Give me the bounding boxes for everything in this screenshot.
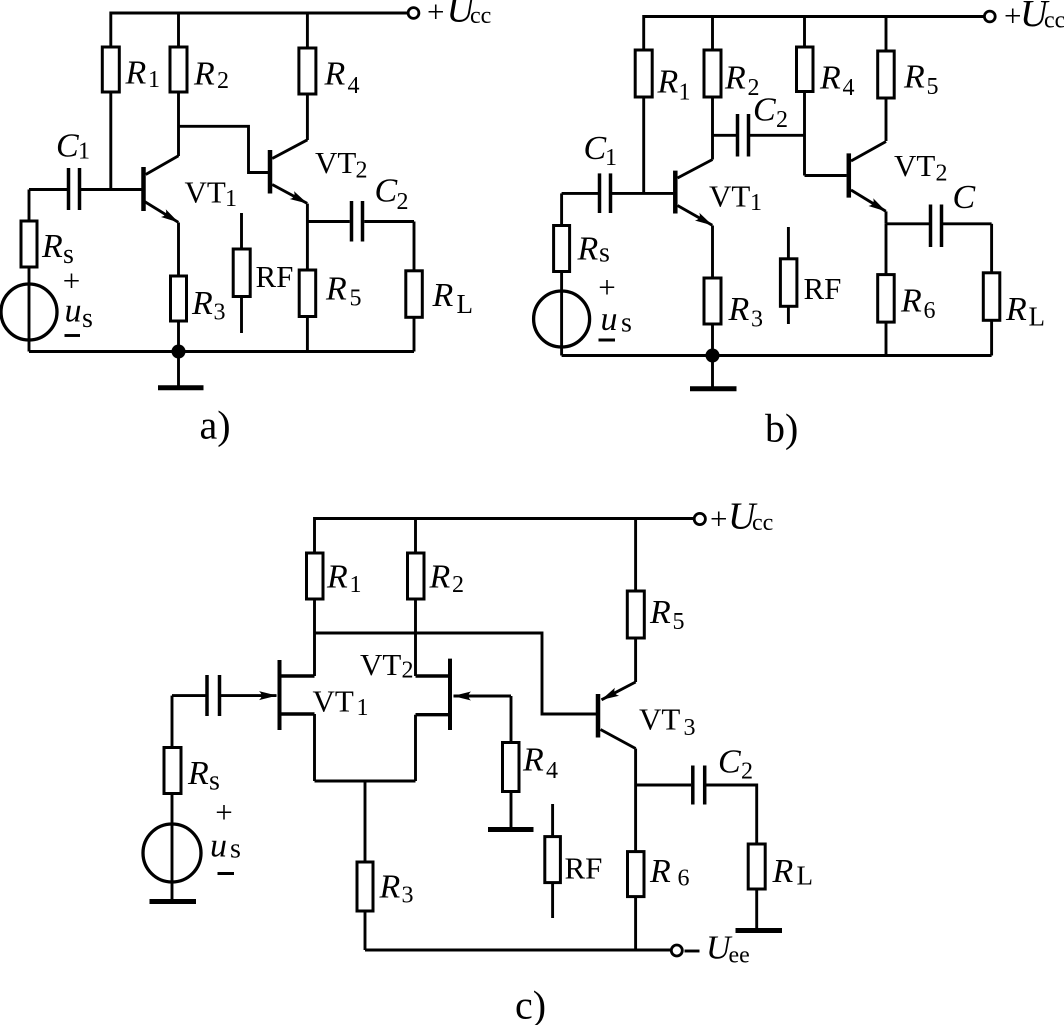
svg-text:1: 1 [78,139,90,165]
label -Uee (c) [685,930,750,969]
svg-text:R: R [429,559,451,596]
resistor Rs (b) [554,193,570,271]
svg-text:L: L [457,289,474,319]
svg-text:RF: RF [256,259,294,294]
capacitor C1 (a) [69,168,80,210]
junction dot (a) [172,345,186,359]
capacitor C2 (c) [693,766,705,805]
label + polarity (a) [63,263,80,298]
label +Ucc (a) [427,0,491,31]
label +Ucc (b) [1004,0,1064,35]
svg-text:R: R [724,60,746,97]
junction dot (b) [706,349,720,363]
wire: input node to C1 (a) [29,188,67,191]
resistor Rs (a) [21,190,37,268]
svg-text:R: R [522,742,544,779]
svg-text:s: s [230,834,241,865]
svg-text:+: + [598,270,615,305]
wire: VT1 emitter to R3 (a) [177,223,180,277]
terminal +Ucc (c) [694,513,705,524]
svg-text:R: R [432,277,454,314]
capacitor C2 (a) [352,201,363,242]
svg-text:R: R [193,56,215,93]
label Rs (c) [187,755,220,797]
svg-text:R: R [577,231,599,268]
label R4 (a) [324,56,360,100]
label a) [200,403,231,448]
wire: +Ucc supply rail (c) [315,519,695,554]
svg-text:s: s [209,766,220,797]
label VT1 (b) [709,179,762,217]
svg-text:L: L [1029,302,1046,332]
svg-text:s: s [599,238,610,269]
svg-text:+: + [1004,0,1021,33]
label - polarity (c) [218,872,235,875]
label C (b) [953,179,976,216]
ground under R4 (c) [488,827,534,832]
svg-text:s: s [621,308,632,339]
svg-text:3: 3 [684,715,696,741]
svg-text:R: R [191,285,213,322]
resistor R2 (c) [408,519,425,677]
svg-text:1: 1 [225,186,237,212]
transistor VT2 (a) [270,140,307,204]
capacitor C (b) [931,205,942,248]
svg-text:2: 2 [397,189,409,215]
label R4 (c) [522,742,558,785]
label RL (a) [432,277,474,319]
label R4 (b) [819,60,855,102]
svg-text:u: u [210,828,227,865]
svg-text:C: C [584,130,607,167]
svg-text:b): b) [765,406,798,451]
resistor R3 (a) [171,276,187,352]
label R6 (c) [649,853,690,892]
resistor RL (a) [406,222,423,352]
label R5 (b) [903,59,939,101]
svg-text:R: R [819,60,841,97]
resistor R3 (c) [357,781,373,950]
wire: Rs to C1 (c) [172,694,206,697]
svg-text:RF: RF [804,271,842,306]
svg-text:RF: RF [565,851,603,886]
wire: C to RL (b) [943,222,992,225]
svg-text:C: C [753,92,776,129]
label C1 (a) [56,128,90,165]
transistor VT2 (c) [416,659,512,730]
resistor R4 (c) [503,696,520,827]
svg-text:cc: cc [1044,8,1064,34]
label us (b) [601,301,632,339]
svg-text:2: 2 [217,68,229,94]
svg-text:R: R [772,853,794,890]
svg-text:VT: VT [315,145,356,180]
capacitor C1 (b) [600,173,611,213]
resistor R4 (b) [797,17,814,176]
source us (b) [534,272,590,356]
terminal -Uee (c) [671,945,682,956]
wire: VT2 source drop (c) [414,715,417,781]
svg-text:cc: cc [470,3,491,29]
resistor R1 (b) [635,50,652,193]
label R1 (a) [125,55,161,94]
label R1 (c) [326,559,362,599]
svg-text:ee: ee [729,943,750,969]
label c) [515,983,546,1025]
resistor R1 (a) [102,47,119,190]
svg-text:4: 4 [348,73,360,99]
transistor VT1 (a) [144,156,179,223]
wire: R2 node to C2 (b) [713,134,737,137]
label R1 (b) [657,64,691,106]
svg-text:2: 2 [452,572,464,598]
svg-text:R: R [326,559,348,596]
terminal +Ucc (a) [408,8,419,19]
svg-text:3: 3 [402,883,414,909]
wire: ground rail (a) [29,350,414,353]
label R6 (b) [900,283,936,325]
label C2 (c) [718,744,753,785]
label + polarity (c) [215,795,232,830]
svg-text:R: R [903,59,925,96]
resistor R6 (b) [878,224,895,356]
resistor R6 (c) [628,785,645,950]
svg-text:u: u [601,301,618,338]
transistor VT1 (b) [675,160,712,226]
resistor R4 (a) [299,13,316,140]
svg-text:4: 4 [546,758,558,784]
svg-text:6: 6 [924,298,936,324]
svg-text:C: C [718,744,741,781]
resistor Rs (c) [164,696,181,794]
label C1 (b) [584,130,618,171]
transistor VT3 (c) [598,682,636,749]
label R5 (c) [649,594,685,635]
wire: VT1 emitter to R3 (b) [711,226,714,279]
label R2 (b) [724,60,760,102]
svg-text:R: R [187,755,209,792]
wire: VT2 emitter to output node (a) [306,204,309,222]
svg-text:VT: VT [360,647,401,682]
svg-text:R: R [324,56,346,93]
wire: drain node to VT3 base (c) [315,633,597,714]
label VT2 (b) [894,148,948,187]
wire: C1 to VT1 base (a) [81,188,142,191]
resistor R1 (c) [307,553,324,676]
svg-text:5: 5 [673,609,685,635]
label R5 (a) [325,271,362,312]
label VT2 (a) [315,145,368,184]
svg-text:2: 2 [936,161,948,187]
svg-text:VT: VT [185,175,226,210]
resistor R5 (b) [878,17,895,142]
resistor R3 (b) [704,278,721,356]
svg-text:1: 1 [679,80,691,106]
transistor VT1 (c) [221,660,315,730]
svg-text:L: L [797,861,814,891]
resistor RF (a) [233,213,250,333]
svg-text:R: R [900,283,922,320]
svg-text:6: 6 [678,866,690,892]
svg-text:C: C [56,128,79,165]
source us (c) [143,794,201,901]
svg-text:a): a) [200,403,231,448]
ground (a) [158,352,204,388]
svg-text:+: + [215,795,232,830]
label + polarity (b) [598,270,615,305]
svg-text:VT: VT [639,702,680,737]
svg-text:R: R [1005,291,1027,328]
resistor R2 (b) [704,17,721,160]
wire: output node to C2 (a) [307,220,349,223]
source us (a) [1,267,57,352]
wire: ground rail (b) [562,354,992,357]
wire: C2 to R4 node (b) [750,134,805,137]
label VT2 (c) [360,647,414,684]
svg-text:2: 2 [402,658,414,684]
label +Ucc (c) [710,496,773,538]
label C2 (a) [375,173,409,216]
svg-text:R: R [41,228,63,265]
wire: VT1 collector to VT2 base branch (a) [179,126,269,172]
label RF (c) [565,851,603,886]
transistor VT2 (b) [849,142,886,212]
resistor R2 (a) [170,13,187,156]
svg-text:1: 1 [605,145,617,171]
svg-text:1: 1 [357,695,369,721]
ground under us (c) [150,899,197,904]
wire: source coupling (c) [315,780,416,783]
wire: input node to C1 (b) [562,192,599,195]
svg-text:+: + [427,0,444,29]
label Rs (a) [41,228,74,270]
svg-text:R: R [379,869,401,906]
wire: +Ucc supply rail (b) [644,17,984,51]
wire: C2 to RL (a) [364,220,414,223]
svg-text:1: 1 [148,67,160,93]
label C2 (b) [753,92,788,134]
svg-text:R: R [649,853,671,890]
resistor RL (c) [748,844,765,928]
label - polarity (b) [599,339,616,342]
wire: C2 to RL (c) [706,785,757,844]
wire: VT1 source drop (c) [313,714,316,781]
wire: C1 to VT1 base (b) [612,192,674,195]
label VT1 (c) [313,684,369,722]
svg-text:2: 2 [741,759,753,785]
label us (a) [65,293,93,335]
label R2 (c) [429,559,465,599]
wire: R4 node to VT2 base (b) [805,174,847,177]
label VT1 (a) [185,175,238,213]
svg-text:1: 1 [350,572,362,598]
svg-text:1: 1 [750,190,762,216]
capacitor C1 (c) [207,675,220,716]
label - polarity (a) [65,334,81,337]
wire: VT2 emitter to output node (b) [885,211,888,223]
svg-text:R: R [649,594,671,631]
label R3 (b) [728,291,764,333]
label R3 (c) [379,869,414,909]
label RF (a) [256,259,294,294]
svg-text:2: 2 [776,107,788,133]
wire: VT3 collector drop to output (c) [634,749,637,786]
resistor RF (c) [545,804,561,918]
resistor R5 (a) [299,222,316,352]
label RL (c) [772,853,814,891]
svg-text:2: 2 [356,158,368,184]
wire: -Uee rail (c) [365,949,671,952]
svg-text:VT: VT [709,179,750,214]
wire: output node to C2 (c) [636,784,691,787]
svg-text:R: R [657,64,679,101]
svg-text:R: R [125,55,147,92]
svg-text:R: R [325,271,347,308]
svg-text:c): c) [515,983,546,1025]
resistor RF (b) [780,227,797,324]
resistor R5 (c) [627,519,644,683]
capacitor C2 (b) [738,114,749,157]
svg-text:C: C [375,173,398,210]
resistor RL (b) [983,224,1000,356]
svg-text:VT: VT [894,148,935,183]
svg-text:R: R [728,291,750,328]
label Rs (b) [577,231,610,269]
svg-text:4: 4 [843,75,855,101]
svg-text:+: + [710,501,727,536]
svg-text:5: 5 [350,286,362,312]
svg-text:3: 3 [751,307,763,333]
label RF (b) [804,271,842,306]
label us (c) [210,828,241,865]
label R3 (a) [191,285,226,326]
svg-text:C: C [953,179,976,216]
svg-text:VT: VT [313,684,354,719]
svg-text:u: u [65,293,82,330]
terminal +Ucc (b) [984,11,995,22]
svg-text:3: 3 [214,300,226,326]
svg-text:5: 5 [927,74,939,100]
label RL (b) [1005,291,1045,332]
svg-text:s: s [82,303,93,334]
svg-text:cc: cc [752,510,773,536]
label b) [765,406,798,451]
wire: output node to C (b) [886,222,929,225]
ground under RL (c) [736,928,783,933]
label R2 (a) [193,56,229,95]
label VT3 (c) [639,702,696,742]
ground (b) [690,356,737,389]
wire: +Ucc supply rail (a) [111,13,408,47]
